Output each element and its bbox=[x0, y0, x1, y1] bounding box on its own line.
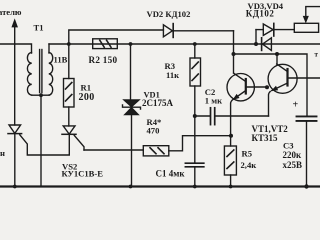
svg-text:т: т bbox=[315, 51, 319, 59]
svg-text:С3: С3 bbox=[283, 140, 294, 150]
svg-text:VD2 КД102: VD2 КД102 bbox=[147, 9, 191, 19]
svg-text:R1: R1 bbox=[81, 82, 92, 92]
svg-text:ателю: ателю bbox=[0, 7, 22, 17]
svg-text:КТ315: КТ315 bbox=[252, 133, 279, 143]
resistor R3 bbox=[190, 42, 201, 162]
svg-text:х25В: х25В bbox=[283, 160, 303, 170]
zener VD1 bbox=[123, 100, 141, 187]
svg-text:2С175А: 2С175А bbox=[142, 98, 173, 108]
svg-text:470: 470 bbox=[147, 125, 160, 135]
resistor R5 bbox=[224, 136, 236, 187]
resistor R4 bbox=[143, 136, 231, 156]
svg-text:1 мк: 1 мк bbox=[205, 95, 222, 105]
capacitor C1 bbox=[185, 163, 203, 186]
wire oscillator top bbox=[234, 54, 308, 116]
wire top rail left segment bbox=[0, 44, 32, 53]
transistor VT1 bbox=[227, 73, 268, 136]
svg-text:R5: R5 bbox=[242, 148, 253, 158]
svg-text:+: + bbox=[293, 100, 299, 111]
svg-text:КД102: КД102 bbox=[246, 8, 275, 18]
wire top rail main bbox=[49, 43, 320, 45]
transformer T1 bbox=[27, 50, 52, 187]
wire VD2 branch bbox=[69, 30, 164, 44]
svg-text:Т1: Т1 bbox=[34, 23, 44, 33]
svg-text:11к: 11к bbox=[166, 70, 179, 80]
resistor R1 bbox=[64, 42, 75, 126]
node R4/VT1 emitter/R5 junction bbox=[229, 134, 233, 138]
diode VD3 bbox=[254, 23, 294, 46]
node arrow to motor bbox=[12, 20, 17, 126]
node R3/C2 junction bbox=[193, 114, 197, 118]
wire VT2 collector lead bbox=[276, 54, 278, 65]
diode VD4 bbox=[262, 38, 272, 51]
node junction VD2/VT1/top wire bbox=[232, 52, 236, 56]
wire VD2 to VT1 collector bbox=[233, 31, 235, 73]
node VT1 base / VT2 emitter junction bbox=[265, 85, 269, 89]
svg-text:220к: 220к bbox=[283, 150, 303, 160]
svg-text:R2 150: R2 150 bbox=[89, 55, 118, 65]
potentiometer R6 bbox=[294, 7, 320, 33]
svg-text:11В: 11В bbox=[54, 54, 68, 64]
svg-text:200: 200 bbox=[79, 92, 95, 103]
wire bottom rail bbox=[0, 185, 320, 187]
node VT2 collector junction bbox=[275, 52, 279, 56]
transistor VT2 bbox=[268, 64, 320, 116]
svg-text:н: н bbox=[0, 148, 5, 158]
thyristor VS2 bbox=[62, 126, 84, 150]
diode VD2 bbox=[163, 24, 233, 38]
resistor R2 bbox=[93, 39, 118, 49]
thyristor VS1 bbox=[8, 125, 69, 187]
svg-text:С1 4мк: С1 4мк bbox=[156, 169, 186, 179]
capacitor C3 bbox=[297, 116, 317, 186]
wire secondary top lead bbox=[48, 44, 50, 53]
svg-text:КУ1С1В-Е: КУ1С1В-Е bbox=[62, 169, 104, 179]
capacitor C2 bbox=[195, 108, 269, 125]
svg-text:2,4к: 2,4к bbox=[241, 160, 257, 170]
wire VS2 gate to R4 bbox=[84, 149, 143, 151]
wire VD1 branch bbox=[130, 44, 132, 100]
